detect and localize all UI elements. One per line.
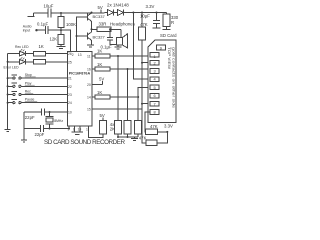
svg-text:R: R bbox=[171, 20, 174, 25]
svg-text:25: 25 bbox=[68, 60, 72, 64]
wire pin16 net bbox=[92, 62, 151, 71]
resistor 2K a bbox=[115, 56, 122, 137]
svg-text:20: 20 bbox=[87, 83, 91, 87]
svg-text:1K: 1K bbox=[97, 90, 102, 95]
ground (bus) bbox=[5, 130, 11, 132]
SD pin 1 bbox=[150, 52, 159, 59]
transistor Q2 BC327 bbox=[88, 29, 106, 45]
svg-text:Error LED: Error LED bbox=[4, 66, 20, 70]
svg-text:PIC16F876A: PIC16F876A bbox=[69, 72, 91, 76]
svg-text:33R: 33R bbox=[99, 22, 107, 27]
resistor 47K a (pin8 pull-up) bbox=[146, 124, 168, 134]
wire 3.3V to SD VDD bbox=[133, 13, 150, 80]
ground (10uF 3.3V) bbox=[153, 27, 161, 29]
svg-text:15: 15 bbox=[87, 107, 91, 111]
svg-text:47K: 47K bbox=[139, 135, 147, 140]
svg-text:13: 13 bbox=[78, 53, 82, 57]
svg-text:14: 14 bbox=[87, 95, 91, 99]
5V label tap bbox=[98, 5, 103, 13]
node rail/100K bbox=[60, 12, 62, 14]
svg-text:5V: 5V bbox=[98, 5, 103, 10]
pin 1 stub / MCLR wire bbox=[88, 126, 103, 138]
svg-text:21: 21 bbox=[68, 77, 72, 81]
svg-text:2x 1N4148: 2x 1N4148 bbox=[107, 3, 129, 8]
svg-text:23: 23 bbox=[68, 93, 72, 97]
svg-text:22pF: 22pF bbox=[35, 132, 45, 137]
transistor Q1 BC337 bbox=[88, 13, 106, 30]
svg-text:8MHz: 8MHz bbox=[54, 119, 63, 123]
SD pin 5 bbox=[150, 85, 159, 90]
diode D2 1N4148 bbox=[107, 3, 167, 16]
node collector rail bbox=[91, 12, 93, 14]
switch Pause bbox=[7, 98, 68, 104]
svg-text:BC327: BC327 bbox=[93, 35, 106, 40]
pin 9 stub bbox=[68, 126, 70, 130]
resistor 2K c bbox=[135, 97, 142, 137]
svg-text:3: 3 bbox=[154, 69, 156, 74]
svg-text:BC337: BC337 bbox=[93, 14, 106, 19]
ground (crystal) bbox=[21, 140, 27, 142]
wire pin14 net SCK bbox=[92, 87, 151, 99]
svg-text:3.3V: 3.3V bbox=[146, 4, 155, 9]
ground (speaker) bbox=[115, 45, 122, 50]
svg-text:19: 19 bbox=[78, 128, 82, 132]
3.3V node bbox=[164, 124, 173, 133]
capacitor 0.1uF input bbox=[37, 21, 62, 34]
svg-text:1: 1 bbox=[86, 128, 88, 132]
svg-text:1K: 1K bbox=[97, 62, 102, 67]
svg-text:2: 2 bbox=[72, 53, 74, 57]
wire pin11 net bbox=[92, 49, 151, 59]
label 4x 2K bbox=[110, 122, 115, 132]
svg-text:3.3V: 3.3V bbox=[164, 124, 173, 129]
resistor 2K b bbox=[124, 69, 131, 137]
svg-text:11: 11 bbox=[87, 54, 91, 58]
crystal X1 8MHz bbox=[46, 111, 64, 130]
node bus led2 bbox=[7, 61, 9, 63]
node bases bbox=[76, 35, 78, 37]
node 3.3V taps bbox=[132, 12, 134, 14]
svg-text:Pause: Pause bbox=[25, 98, 35, 102]
switch Stop bbox=[7, 73, 68, 79]
audio input terminal bbox=[23, 25, 38, 33]
LED error bbox=[4, 57, 34, 69]
svg-text:16: 16 bbox=[87, 67, 91, 71]
crystal circuit: wire OSC2 bbox=[24, 111, 68, 113]
svg-text:1K: 1K bbox=[97, 49, 102, 54]
wire pin15 net DO bbox=[92, 103, 151, 109]
svg-text:0.1µF: 0.1µF bbox=[37, 21, 48, 26]
speaker (headphone) bbox=[117, 29, 128, 48]
resistor 330R bbox=[163, 13, 179, 30]
chip U1 PIC16F876A bbox=[68, 52, 93, 127]
resistor 1K (rec led) bbox=[34, 44, 68, 56]
svg-text:8: 8 bbox=[154, 110, 156, 115]
svg-text:12K: 12K bbox=[50, 36, 58, 41]
SD pin 8 bbox=[150, 110, 159, 115]
svg-text:Rec LED: Rec LED bbox=[15, 45, 29, 49]
wire pin15 net down to 47K b bbox=[142, 109, 146, 143]
node DI bbox=[141, 62, 143, 64]
svg-text:SD Card: SD Card bbox=[160, 33, 177, 38]
svg-text:10: 10 bbox=[68, 110, 72, 114]
ground (330R) bbox=[163, 29, 171, 31]
SD vertical text bbox=[167, 47, 175, 108]
svg-text:Rec: Rec bbox=[25, 90, 31, 94]
resistor 1K (error led) bbox=[34, 60, 68, 64]
svg-text:100K: 100K bbox=[66, 22, 76, 27]
svg-text:47K: 47K bbox=[140, 22, 148, 27]
SD pin 4 bbox=[150, 77, 159, 82]
svg-text:SD CARD SOUND RECORDER: SD CARD SOUND RECORDER bbox=[44, 139, 125, 146]
svg-text:1K: 1K bbox=[39, 44, 44, 49]
capacitor 10uF (3.3V) bbox=[140, 13, 160, 29]
svg-text:6: 6 bbox=[154, 93, 156, 98]
svg-text:22: 22 bbox=[68, 85, 72, 89]
switch Play bbox=[7, 81, 68, 87]
LED rec bbox=[8, 45, 34, 56]
resistor 47K b (DO pull-up) bbox=[139, 132, 168, 146]
svg-text:5: 5 bbox=[154, 85, 156, 90]
svg-text:7: 7 bbox=[154, 101, 156, 106]
bus left bbox=[7, 54, 9, 130]
svg-text:24: 24 bbox=[68, 101, 72, 105]
SD pin 7 bbox=[150, 101, 159, 106]
pins 8,19 ground stubs bbox=[72, 126, 84, 135]
resistor 100K bbox=[58, 13, 76, 30]
ground (12K) bbox=[57, 46, 66, 48]
ground (5V rail decoupling) bbox=[28, 13, 35, 17]
capacitor 22pF bottom bbox=[24, 125, 69, 137]
resistor 12K bbox=[50, 30, 65, 46]
capacitor 0.1uF output bbox=[101, 28, 119, 49]
capacitor 22pF top bbox=[25, 109, 45, 121]
resistor 47K (DO pull-up) bbox=[139, 13, 148, 110]
svg-text:9: 9 bbox=[160, 45, 162, 50]
wire to pin 2 bbox=[61, 30, 71, 51]
svg-text:input: input bbox=[23, 29, 30, 33]
node emitters bbox=[91, 28, 93, 30]
SD card outline bbox=[148, 33, 177, 123]
wire 5V rail left bbox=[34, 12, 48, 14]
svg-text:5V: 5V bbox=[99, 77, 104, 82]
ground (BC327 collector) bbox=[87, 45, 94, 47]
diode D1 1N4148 bbox=[105, 10, 118, 16]
switch Rec bbox=[7, 90, 68, 96]
svg-text:gold contacts on other side: gold contacts on other side bbox=[171, 47, 175, 108]
resistor 2K (MCLR pull-up) bbox=[100, 113, 107, 134]
wire to SD pin 2 bbox=[142, 62, 151, 64]
svg-text:1: 1 bbox=[154, 54, 156, 59]
wire SD pin8 to 47K a bbox=[145, 112, 151, 132]
SD pin 6 bbox=[150, 93, 159, 98]
wire base dropper pin 13 bbox=[77, 17, 88, 52]
svg-text:TOP VIEW: TOP VIEW bbox=[167, 47, 172, 69]
resistor 33R bbox=[92, 22, 122, 32]
svg-text:Stop: Stop bbox=[25, 73, 32, 77]
svg-text:22pF: 22pF bbox=[25, 115, 35, 120]
SD pin 2 bbox=[150, 60, 159, 65]
svg-text:47K: 47K bbox=[150, 124, 158, 129]
svg-text:Play: Play bbox=[25, 81, 32, 85]
SD pin 9 bbox=[157, 45, 166, 51]
svg-text:5V: 5V bbox=[100, 113, 105, 118]
svg-text:10µF: 10µF bbox=[44, 4, 54, 9]
SD pin 3 bbox=[150, 69, 159, 74]
wire left leg crystal bbox=[23, 112, 25, 140]
ground rail 2K bbox=[117, 136, 138, 140]
node bias bbox=[60, 29, 62, 31]
5V tap pin20 bbox=[92, 77, 104, 85]
svg-text:Headphones: Headphones bbox=[110, 22, 136, 27]
svg-text:2: 2 bbox=[154, 60, 156, 65]
wire 5V rail bbox=[51, 12, 105, 14]
capacitor 10uF (rail) bbox=[44, 4, 54, 18]
